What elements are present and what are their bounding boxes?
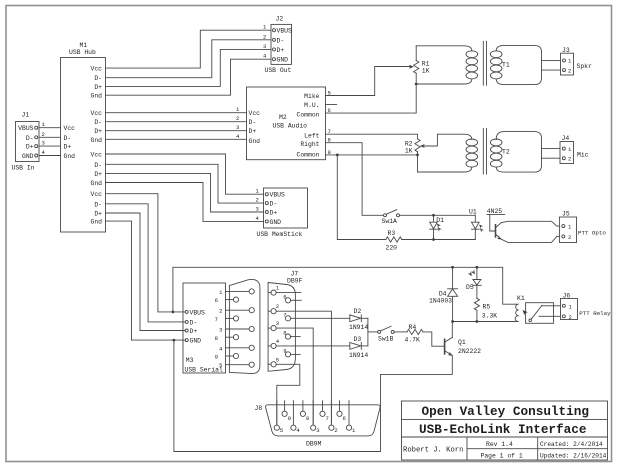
svg-text:5: 5 [219, 362, 222, 369]
svg-text:D-: D- [190, 319, 198, 326]
transistor Q1 2N2222 [445, 322, 482, 356]
wire D2/D3 cathodes to Sw1B [367, 318, 369, 346]
junction rail R5 [476, 320, 479, 323]
svg-text:D4: D4 [439, 290, 447, 297]
svg-text:GND: GND [22, 153, 34, 160]
relay K1 [515, 295, 554, 323]
wire M1 D- to M2 pin2 [106, 115, 247, 122]
svg-text:D1: D1 [436, 217, 444, 224]
svg-text:DB9F: DB9F [287, 278, 303, 285]
svg-text:T1: T1 [502, 62, 510, 69]
wire T1 secondary to J3 pin2 [542, 69, 561, 71]
resistor R3 [386, 230, 402, 252]
wires M3 to its DB9 pins [226, 291, 250, 364]
svg-text:Vcc: Vcc [90, 110, 102, 117]
junction VBUS at M3 [172, 311, 175, 314]
svg-text:T2: T2 [502, 149, 510, 156]
wire U1 emitter to J5 pin2 [501, 236, 559, 242]
svg-text:D-: D- [249, 119, 257, 126]
svg-text:Gnd: Gnd [249, 138, 261, 145]
wire M1 Vcc to M2 pin1 [106, 106, 247, 113]
wire Sw1A to D1 to U1 LED [400, 214, 476, 216]
svg-text:4N25: 4N25 [487, 208, 503, 215]
svg-text:D-: D- [270, 201, 278, 208]
svg-text:D+: D+ [94, 211, 102, 218]
svg-text:USB Serial: USB Serial [185, 367, 224, 374]
svg-text:J4: J4 [562, 135, 570, 142]
connector J2 [265, 16, 293, 75]
svg-text:7: 7 [283, 311, 286, 318]
svg-text:3: 3 [316, 427, 319, 434]
svg-text:Created: 2/4/2014: Created: 2/4/2014 [540, 441, 603, 448]
svg-text:USB Audio: USB Audio [273, 123, 308, 130]
wire M1 Vcc to M3 VBUS [106, 194, 186, 312]
svg-text:3: 3 [42, 140, 45, 147]
wire J7 pin1 stub [276, 292, 301, 294]
connector J3 [561, 47, 593, 75]
svg-text:D+: D+ [249, 128, 257, 135]
potentiometer R1 [409, 46, 430, 84]
VBUS rail to relay [173, 267, 515, 312]
junction R1 bottom [415, 83, 418, 86]
switch Sw1B [378, 326, 395, 342]
LED D5 [466, 267, 481, 298]
svg-text:D+: D+ [26, 144, 34, 151]
svg-text:U1: U1 [469, 209, 477, 216]
svg-text:D-: D- [26, 135, 34, 142]
svg-text:D-: D- [64, 135, 72, 142]
wire J7 pin6 stub [291, 299, 302, 301]
wire U1 collector to J5 pin1 [501, 221, 559, 226]
wire M1 D- to J2 pin2 [106, 33, 272, 77]
connector J8 DB9M [255, 401, 381, 448]
svg-text:Rev 1.4: Rev 1.4 [486, 441, 513, 448]
svg-text:6: 6 [215, 297, 218, 304]
svg-text:2: 2 [568, 156, 571, 163]
svg-text:VBUS: VBUS [270, 192, 286, 199]
svg-text:R4: R4 [409, 324, 417, 331]
svg-text:M1: M1 [80, 42, 88, 49]
svg-text:Gnd: Gnd [90, 137, 102, 144]
svg-text:J1: J1 [22, 112, 30, 119]
title block [402, 401, 608, 460]
svg-text:220: 220 [386, 245, 398, 252]
svg-text:Vcc: Vcc [249, 110, 261, 117]
wire M1 Gnd to M3 GND [106, 221, 186, 340]
resistor R5 [474, 298, 497, 321]
diode D4 1N4003 [429, 267, 458, 321]
svg-text:D-: D- [94, 119, 102, 126]
wire M1 Gnd to J2 pin4 [106, 53, 272, 95]
wire M1 D+ to M3 D+ [106, 213, 186, 331]
svg-text:R1: R1 [422, 60, 430, 67]
wire Sw1B to R4 [394, 331, 407, 333]
wire M2 Right pin8 to Sw1A [326, 143, 384, 216]
svg-text:5: 5 [280, 427, 283, 434]
LED D1 [430, 215, 444, 239]
svg-text:3: 3 [219, 327, 222, 334]
svg-text:USB In: USB In [12, 165, 35, 172]
svg-text:D-: D- [277, 37, 285, 44]
ground path M3 GND to Q1 emitter [174, 340, 452, 451]
svg-text:2: 2 [42, 131, 45, 138]
svg-text:Mike: Mike [304, 93, 320, 100]
svg-text:3: 3 [256, 206, 259, 213]
svg-text:Page 1 of 1: Page 1 of 1 [481, 453, 523, 460]
connector J6 [561, 293, 612, 321]
wire J1 pin4 to M1 Gnd [39, 149, 61, 156]
wire M2 Common pin9 to R2 bottom [326, 154, 418, 156]
wire M1 D- to M3 D- [106, 204, 186, 322]
svg-text:D2: D2 [354, 308, 362, 315]
svg-text:J5: J5 [562, 211, 570, 218]
wire J7 pin5 to J8 pin5 [276, 364, 300, 425]
svg-text:Updated: 2/16/2014: Updated: 2/16/2014 [540, 452, 607, 459]
wire J7 pin8 stub [291, 336, 301, 338]
svg-text:Vcc: Vcc [90, 152, 102, 159]
wire J1 pin3 to M1 D+ [39, 140, 61, 147]
svg-text:Vcc: Vcc [90, 66, 102, 73]
svg-text:3: 3 [276, 320, 279, 327]
svg-text:Q1: Q1 [458, 339, 466, 346]
svg-text:2: 2 [276, 303, 279, 310]
svg-text:D+: D+ [94, 171, 102, 178]
wire J1 pin1 to M1 Vcc [39, 121, 61, 128]
svg-text:M3: M3 [186, 357, 194, 364]
DB9 male of M3 [229, 279, 260, 373]
svg-text:GND: GND [277, 57, 289, 64]
wire J1 pin2 to M1 D- [39, 131, 61, 138]
junction rail D4 [451, 266, 454, 269]
svg-text:7: 7 [215, 316, 218, 323]
svg-text:Spkr: Spkr [577, 63, 593, 70]
svg-text:USB-EchoLink Interface: USB-EchoLink Interface [419, 422, 587, 437]
wire M1 Gnd to MemStick pin4 [106, 183, 264, 222]
svg-text:Mic: Mic [577, 152, 589, 159]
diode D3 1N914 [349, 336, 368, 359]
svg-text:8: 8 [306, 415, 309, 422]
svg-text:J2: J2 [276, 16, 284, 23]
svg-text:Robert J. Korn: Robert J. Korn [403, 447, 463, 455]
svg-text:VBUS: VBUS [277, 28, 293, 35]
junction rail Q1/D4 [451, 320, 454, 323]
resistor R4 [405, 324, 424, 344]
wire T1 secondary to J3 pin1 [542, 59, 561, 61]
svg-text:9: 9 [283, 347, 286, 354]
wire M2 Common pin6 to R1 bottom [326, 84, 417, 113]
wire R3 rail to U1 LED bottom [402, 239, 476, 241]
wire M1 Gnd to M2 pin4 [106, 133, 247, 140]
svg-text:J3: J3 [562, 47, 570, 54]
svg-text:6: 6 [283, 293, 286, 300]
wire J7 pin2 to J8 pin2 [276, 311, 331, 425]
wire M1 Vcc to J2 pin1 [106, 24, 272, 68]
svg-text:2: 2 [263, 33, 266, 40]
svg-text:USB Out: USB Out [265, 67, 292, 74]
svg-text:D-: D- [94, 162, 102, 169]
svg-text:PTT Opto: PTT Opto [578, 230, 606, 237]
svg-text:2: 2 [568, 234, 571, 241]
svg-text:D3: D3 [354, 336, 362, 343]
wire relay to J6 pin1 [554, 305, 560, 307]
wire T2 secondary to J4 pin1 [542, 148, 561, 150]
svg-text:GND: GND [270, 219, 282, 226]
svg-text:3: 3 [236, 124, 239, 131]
wire M1 Vcc to MemStick pin1 [106, 154, 264, 195]
wire M1 D+ to M2 pin3 [106, 124, 247, 131]
wire T2 secondary to J4 pin2 [542, 157, 561, 159]
svg-text:8: 8 [283, 330, 286, 337]
wire J7 pin9 stub [291, 353, 301, 355]
wire M2 Left pin7 to R2 top [326, 134, 418, 139]
svg-text:1N4003: 1N4003 [429, 298, 452, 305]
svg-text:Left: Left [304, 133, 320, 140]
USB MemStick connector [257, 188, 308, 238]
connector J1 [12, 112, 40, 172]
svg-text:DB9M: DB9M [306, 440, 322, 447]
svg-text:9: 9 [288, 415, 291, 422]
wire collector rail to relay coil [453, 321, 518, 323]
svg-text:GND: GND [190, 338, 202, 345]
svg-text:D+: D+ [190, 328, 198, 335]
svg-text:Vcc: Vcc [90, 191, 102, 198]
svg-text:D+: D+ [64, 144, 72, 151]
svg-text:D+: D+ [94, 128, 102, 135]
svg-text:2: 2 [219, 308, 222, 315]
svg-text:Sw1B: Sw1B [378, 335, 394, 342]
svg-text:1N914: 1N914 [349, 352, 368, 359]
svg-text:7: 7 [326, 415, 329, 422]
wire J7 pin3 to J8 pin3 [276, 328, 313, 425]
switch Sw1A [382, 210, 400, 226]
wire M2 Mike pin5 to R1 wiper [326, 67, 410, 96]
svg-text:D-: D- [94, 75, 102, 82]
junction M2 pin9 / R3 branch [336, 154, 339, 157]
svg-text:Gnd: Gnd [64, 153, 76, 160]
svg-text:Right: Right [300, 141, 319, 148]
svg-text:VBUS: VBUS [190, 309, 206, 316]
svg-text:2: 2 [568, 67, 571, 74]
svg-text:Gnd: Gnd [90, 93, 102, 100]
wire M1 D+ to J2 pin3 [106, 43, 272, 87]
svg-text:J8: J8 [255, 405, 263, 412]
svg-text:D5: D5 [466, 284, 474, 291]
svg-text:1K: 1K [422, 67, 430, 74]
svg-text:Gnd: Gnd [90, 219, 102, 226]
wire relay to J6 pin2 [554, 315, 560, 317]
svg-text:3.3K: 3.3K [482, 313, 498, 320]
diode D2 1N914 [349, 308, 368, 331]
svg-text:2: 2 [334, 427, 337, 434]
wire J7 pin4 to D3 [276, 345, 350, 347]
svg-text:5: 5 [276, 356, 279, 363]
svg-text:D+: D+ [270, 210, 278, 217]
USB audio M2 [247, 87, 326, 160]
svg-text:M2: M2 [279, 114, 287, 121]
USB serial M3 [183, 283, 226, 374]
connector J7 DB9F [268, 271, 302, 372]
wire J7 pin7 to D2 [291, 317, 350, 319]
svg-text:PTT Relay: PTT Relay [579, 310, 611, 317]
svg-text:Open Valley Consulting: Open Valley Consulting [422, 404, 590, 419]
wire M1 D+ to MemStick pin3 [106, 173, 264, 212]
transformer T1 [416, 41, 541, 85]
svg-text:Common: Common [296, 112, 319, 119]
wire Common branch down to R3 rail [337, 155, 386, 240]
wire M1 D- to MemStick pin2 [106, 164, 264, 203]
USB hub M1 [61, 42, 106, 232]
svg-text:Vcc: Vcc [64, 125, 76, 132]
svg-text:J7: J7 [291, 271, 299, 278]
svg-text:Common: Common [296, 152, 319, 159]
potentiometer R2 [405, 134, 438, 155]
svg-text:9: 9 [215, 354, 218, 361]
svg-text:6: 6 [343, 415, 346, 422]
svg-text:M.U.: M.U. [304, 102, 319, 109]
svg-text:R5: R5 [483, 304, 491, 311]
svg-text:8: 8 [215, 335, 218, 342]
svg-text:VBUS: VBUS [18, 125, 34, 132]
svg-text:Sw1A: Sw1A [382, 218, 398, 225]
svg-text:4.7K: 4.7K [405, 337, 421, 344]
optocoupler U1 4N25 [469, 208, 505, 240]
wire R4 to Q1 base [423, 332, 445, 346]
junction R2 bottom [416, 154, 419, 157]
svg-text:K1: K1 [517, 295, 525, 302]
junction GND at M3 [173, 339, 176, 342]
connector J4 [560, 135, 589, 164]
svg-text:D-: D- [94, 201, 102, 208]
svg-text:2: 2 [256, 197, 259, 204]
svg-text:USB Hub: USB Hub [69, 49, 96, 56]
connector J5 [559, 211, 606, 243]
svg-text:1K: 1K [405, 147, 413, 154]
svg-text:2N2222: 2N2222 [458, 348, 481, 355]
svg-text:Gnd: Gnd [90, 180, 102, 187]
svg-text:D+: D+ [277, 47, 285, 54]
svg-text:1N914: 1N914 [349, 324, 368, 331]
svg-text:3: 3 [263, 43, 266, 50]
wire M2 M.U. stub [326, 104, 337, 106]
transformer T2 [418, 129, 542, 175]
wire R2 bottom to T2 primary bottom [417, 155, 419, 172]
svg-text:J6: J6 [563, 293, 571, 300]
svg-text:2: 2 [236, 115, 239, 122]
junction D1 top [432, 214, 435, 217]
junction D1 bottom [432, 238, 435, 241]
svg-text:R2: R2 [405, 140, 413, 147]
junction rail D5 [476, 266, 479, 269]
svg-text:R3: R3 [388, 230, 396, 237]
svg-text:USB MemStick: USB MemStick [257, 231, 303, 238]
svg-text:2: 2 [569, 314, 572, 321]
svg-text:D+: D+ [94, 84, 102, 91]
